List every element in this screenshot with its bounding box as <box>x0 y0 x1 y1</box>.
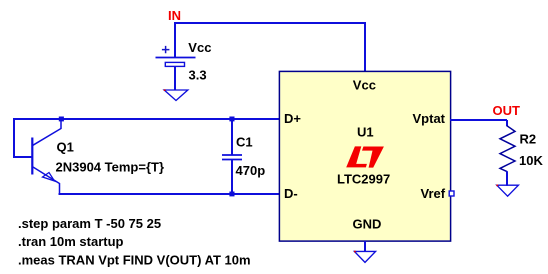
svg-text:.tran 10m startup: .tran 10m startup <box>18 234 124 249</box>
svg-text:C1: C1 <box>236 135 253 150</box>
wire base <box>13 156 33 158</box>
wire IN down to voltage source <box>174 22 176 58</box>
wire node D- horizontal <box>59 193 281 195</box>
junction at Q1 collector <box>59 117 64 122</box>
svg-text:LTC2997: LTC2997 <box>337 172 390 187</box>
junction C1 top <box>229 117 234 122</box>
voltage source Vcc (battery) <box>156 46 196 67</box>
wire U1 GND to ground <box>364 241 366 252</box>
wire node D+ horizontal <box>13 118 280 120</box>
pin Vref open square <box>449 191 454 196</box>
wire OUT down to R2 <box>506 120 508 126</box>
transistor Q1 <box>32 120 61 195</box>
svg-text:Vcc: Vcc <box>353 78 376 93</box>
svg-text:Vptat: Vptat <box>413 111 446 126</box>
svg-text:Q1: Q1 <box>57 140 74 155</box>
wire IN down to U1 Vcc pin <box>364 22 366 72</box>
svg-text:2N3904 Temp={T}: 2N3904 Temp={T} <box>56 160 165 175</box>
svg-text:Vref: Vref <box>421 186 446 201</box>
resistor R2 <box>500 126 515 172</box>
svg-text:.meas TRAN Vpt FIND V(OUT) AT: .meas TRAN Vpt FIND V(OUT) AT 10m <box>18 253 251 268</box>
svg-text:IN: IN <box>168 8 181 23</box>
svg-text:3.3: 3.3 <box>189 68 207 83</box>
ground (below U1) <box>354 251 376 263</box>
svg-text:D-: D- <box>284 186 298 201</box>
ground (below R2) <box>496 185 518 197</box>
svg-text:U1: U1 <box>357 125 374 140</box>
LT logo <box>346 146 384 167</box>
svg-text:Vcc: Vcc <box>188 40 211 55</box>
wire battery to ground <box>174 67 176 91</box>
wire IN horizontal top <box>174 22 366 24</box>
IC U1 LTC2997 body <box>279 71 450 241</box>
svg-text:D+: D+ <box>284 111 301 126</box>
wire left vertical (collector to base) <box>13 118 15 158</box>
junction C1 bottom <box>229 192 234 197</box>
svg-text:10K: 10K <box>519 153 543 168</box>
wire Vptat to OUT <box>450 119 507 121</box>
wire R2 to ground <box>506 171 508 186</box>
svg-text:470p: 470p <box>236 163 266 178</box>
svg-text:.step param T -50 75 25: .step param T -50 75 25 <box>18 216 161 231</box>
svg-text:GND: GND <box>353 217 382 232</box>
ground (below battery) <box>164 89 188 100</box>
svg-text:R2: R2 <box>520 132 537 147</box>
svg-text:OUT: OUT <box>493 103 521 118</box>
capacitor C1 <box>222 119 242 195</box>
